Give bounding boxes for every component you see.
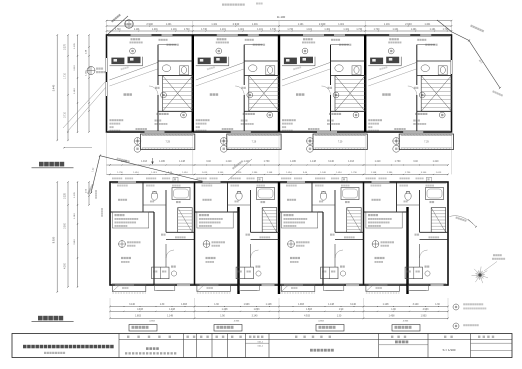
svg-text:3.410: 3.410 xyxy=(74,238,76,244)
svg-text:001-1: 001-1 xyxy=(258,341,264,343)
svg-text:1.410: 1.410 xyxy=(133,172,139,174)
svg-text:1.105: 1.105 xyxy=(74,42,76,48)
svg-text:1.148: 1.148 xyxy=(371,172,377,174)
svg-text:1.401: 1.401 xyxy=(425,24,431,26)
svg-text:1.180: 1.180 xyxy=(252,172,258,174)
svg-text:1.408: 1.408 xyxy=(389,316,395,318)
svg-text:3.140: 3.140 xyxy=(252,316,258,318)
svg-text:1.013: 1.013 xyxy=(348,161,354,163)
svg-text:1.740: 1.740 xyxy=(184,29,190,31)
svg-text:7.29: 7.29 xyxy=(165,142,170,144)
svg-text:3.900: 3.900 xyxy=(65,222,67,228)
svg-text:1.401: 1.401 xyxy=(324,29,330,31)
svg-text:001-1: 001-1 xyxy=(258,346,264,348)
svg-text:4.300: 4.300 xyxy=(65,262,67,268)
svg-text:1.740: 1.740 xyxy=(356,29,362,31)
svg-text:1.710: 1.710 xyxy=(65,72,67,78)
svg-text:2.940: 2.940 xyxy=(233,22,240,26)
svg-text:1.401: 1.401 xyxy=(238,29,244,31)
svg-text:3.40: 3.40 xyxy=(206,161,211,163)
svg-text:1.410: 1.410 xyxy=(336,172,342,174)
svg-text:1.101: 1.101 xyxy=(257,29,263,31)
svg-text:1.013: 1.013 xyxy=(202,172,208,174)
svg-text:1.730: 1.730 xyxy=(351,172,357,174)
svg-text:1.410: 1.410 xyxy=(74,87,76,93)
svg-text:11.100: 11.100 xyxy=(277,15,286,19)
svg-text:3.140: 3.140 xyxy=(328,161,334,163)
svg-text:7.29: 7.29 xyxy=(338,142,343,144)
svg-text:2.225: 2.225 xyxy=(65,192,67,198)
svg-text:4.933: 4.933 xyxy=(304,316,310,318)
svg-text:2.940: 2.940 xyxy=(146,22,153,26)
svg-text:1.410: 1.410 xyxy=(182,172,188,174)
svg-text:1.105: 1.105 xyxy=(74,191,76,197)
svg-text:1.730: 1.730 xyxy=(395,161,401,163)
svg-text:1.101: 1.101 xyxy=(171,29,177,31)
svg-text:1.148: 1.148 xyxy=(383,304,389,306)
svg-text:1.90: 1.90 xyxy=(391,309,396,311)
svg-text:1.730: 1.730 xyxy=(117,172,123,174)
svg-text:4.933: 4.933 xyxy=(234,320,240,322)
svg-text:3.140: 3.140 xyxy=(421,172,427,174)
svg-text:1.148: 1.148 xyxy=(310,161,316,163)
svg-text:1.30: 1.30 xyxy=(160,304,165,306)
svg-text:1.903: 1.903 xyxy=(244,304,250,306)
svg-text:1.30: 1.30 xyxy=(337,316,342,318)
svg-text:1.910: 1.910 xyxy=(74,212,76,218)
svg-text:1.740: 1.740 xyxy=(201,29,207,31)
svg-text:1.410: 1.410 xyxy=(375,161,381,163)
svg-text:1.410: 1.410 xyxy=(226,161,232,163)
svg-text:7.29: 7.29 xyxy=(424,142,429,144)
svg-text:1.101: 1.101 xyxy=(211,24,217,26)
svg-text:1.101: 1.101 xyxy=(134,29,140,31)
svg-text:1.730: 1.730 xyxy=(264,161,270,163)
svg-text:1.903: 1.903 xyxy=(421,316,427,318)
svg-text:1.401: 1.401 xyxy=(338,24,344,26)
svg-text:1.803: 1.803 xyxy=(306,309,312,311)
svg-text:1.101: 1.101 xyxy=(220,29,226,31)
svg-text:1.013: 1.013 xyxy=(151,172,157,174)
svg-text:1.148: 1.148 xyxy=(167,316,173,318)
svg-text:1.180: 1.180 xyxy=(290,161,296,163)
svg-text:1.101: 1.101 xyxy=(298,24,304,26)
svg-text:1.148: 1.148 xyxy=(320,172,326,174)
svg-text:1.401: 1.401 xyxy=(252,24,258,26)
svg-text:2.275: 2.275 xyxy=(65,43,67,49)
svg-text:1.30: 1.30 xyxy=(435,304,440,306)
svg-text:1.101: 1.101 xyxy=(306,29,312,31)
svg-text:1.101: 1.101 xyxy=(384,24,390,26)
svg-text:1.148: 1.148 xyxy=(266,304,272,306)
svg-text:1.30: 1.30 xyxy=(214,304,219,306)
svg-text:3.140: 3.140 xyxy=(413,304,419,306)
svg-text:1.180: 1.180 xyxy=(387,172,393,174)
svg-text:1.148: 1.148 xyxy=(179,161,185,163)
svg-text:1.408: 1.408 xyxy=(169,309,175,311)
svg-text:1.803: 1.803 xyxy=(254,309,260,311)
svg-text:1.740: 1.740 xyxy=(374,29,380,31)
svg-text:3.40: 3.40 xyxy=(413,161,418,163)
svg-text:4.933: 4.933 xyxy=(149,320,155,322)
svg-text:5.440: 5.440 xyxy=(52,84,56,91)
svg-text:2.940: 2.940 xyxy=(319,22,326,26)
svg-text:1.90: 1.90 xyxy=(339,309,344,311)
svg-text:3.140: 3.140 xyxy=(129,304,135,306)
svg-text:4.933: 4.933 xyxy=(137,309,143,311)
svg-text:1.410: 1.410 xyxy=(433,161,439,163)
svg-text:1.401: 1.401 xyxy=(152,29,158,31)
svg-text:1.740: 1.740 xyxy=(287,29,293,31)
svg-text:1.148: 1.148 xyxy=(328,304,334,306)
svg-text:3.710: 3.710 xyxy=(65,111,67,117)
svg-text:4.933: 4.933 xyxy=(318,320,324,322)
svg-text:1.401: 1.401 xyxy=(166,24,172,26)
svg-text:1.740: 1.740 xyxy=(115,29,121,31)
svg-text:1.740: 1.740 xyxy=(270,29,276,31)
svg-text:1.730: 1.730 xyxy=(405,172,411,174)
svg-text:1.903: 1.903 xyxy=(298,304,304,306)
svg-text:1.408: 1.408 xyxy=(222,309,228,311)
svg-text:2.940: 2.940 xyxy=(405,22,412,26)
svg-text:1.101: 1.101 xyxy=(430,29,436,31)
svg-text:1.013: 1.013 xyxy=(141,161,147,163)
svg-text:1.013: 1.013 xyxy=(436,172,442,174)
svg-text:7.29: 7.29 xyxy=(252,142,257,144)
svg-text:1.410: 1.410 xyxy=(286,172,292,174)
svg-text:1.90: 1.90 xyxy=(220,316,225,318)
svg-text:1.101: 1.101 xyxy=(393,29,399,31)
svg-text:1.110: 1.110 xyxy=(74,65,76,71)
svg-text:4.933: 4.933 xyxy=(403,320,409,322)
svg-text:S = 1/100: S = 1/100 xyxy=(443,348,456,352)
svg-text:1.148: 1.148 xyxy=(267,172,273,174)
svg-text:3.140: 3.140 xyxy=(218,172,224,174)
svg-text:3.140: 3.140 xyxy=(350,304,356,306)
svg-text:8.920: 8.920 xyxy=(52,236,56,243)
svg-text:4.933: 4.933 xyxy=(423,309,429,311)
svg-text:1.803: 1.803 xyxy=(135,316,141,318)
svg-text:1.401: 1.401 xyxy=(411,29,417,31)
svg-text:1.101: 1.101 xyxy=(343,29,349,31)
svg-text:1.180: 1.180 xyxy=(159,161,165,163)
svg-text:1.903: 1.903 xyxy=(181,304,187,306)
